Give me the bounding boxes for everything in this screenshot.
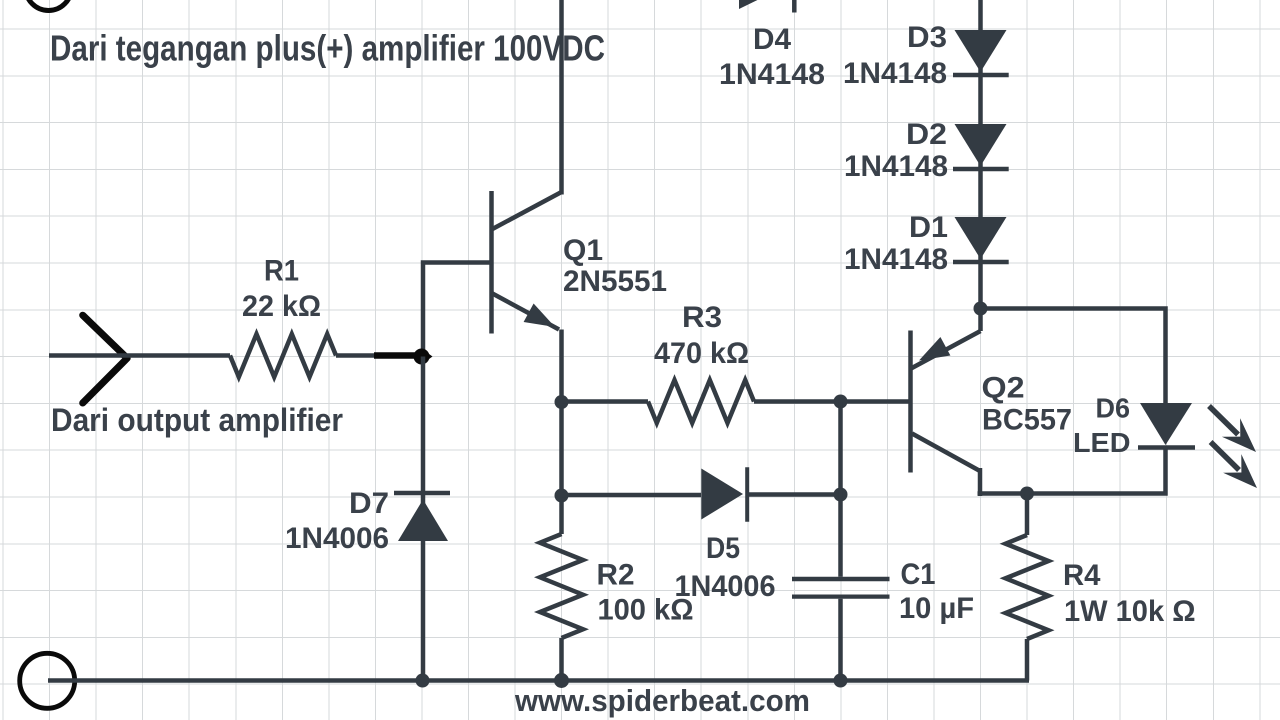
svg-text:R3: R3: [682, 301, 722, 334]
wire Q1 emitter column: [559, 330, 564, 535]
wire R3 to Q2 base: [754, 399, 911, 404]
svg-text:Dari output amplifier: Dari output amplifier: [51, 402, 343, 438]
diode D5 1N4006: [701, 467, 747, 522]
wire bottom rail: [48, 678, 1029, 683]
svg-text:1N4148: 1N4148: [844, 243, 948, 276]
wire Q1 collector feed: [559, 0, 564, 195]
node R3/feedback: [834, 395, 848, 409]
svg-text:D7: D7: [349, 487, 389, 520]
svg-text:www.spiderbeat.com: www.spiderbeat.com: [514, 683, 810, 718]
svg-text:D1: D1: [909, 211, 948, 244]
node emitter/D5: [555, 489, 569, 503]
terminal circle top-left: [26, 0, 72, 11]
wire LED bottom row: [978, 448, 1166, 494]
svg-text:Q1: Q1: [563, 234, 603, 267]
svg-text:1N4006: 1N4006: [285, 522, 389, 555]
LED D6: [1138, 403, 1195, 448]
node rail/R2: [554, 673, 569, 688]
resistor R1: [230, 334, 336, 377]
svg-text:R1: R1: [264, 255, 299, 288]
node D5/C1: [834, 488, 848, 502]
wire diode column: [978, 0, 983, 309]
wire input: [49, 353, 230, 358]
node emitter/R3: [555, 395, 569, 409]
wire R1 to node: [336, 353, 428, 358]
diode D2 1N4148: [953, 124, 1009, 169]
svg-text:1N4148: 1N4148: [844, 150, 948, 183]
svg-text:BC557: BC557: [982, 404, 1072, 437]
svg-text:470 kΩ: 470 kΩ: [654, 337, 749, 370]
wire node to R4: [1025, 494, 1030, 536]
wire R2 to rail: [559, 638, 564, 681]
terminal circle bottom-left: [20, 653, 75, 708]
node diode/emitter/LED: [974, 302, 988, 316]
wire R4 to rail: [1025, 639, 1030, 681]
resistor R2: [540, 534, 583, 638]
svg-text:R2: R2: [597, 559, 635, 592]
svg-text:22 kΩ: 22 kΩ: [242, 290, 321, 323]
wire node to LED top: [981, 309, 1166, 404]
resistor R3: [648, 380, 754, 423]
diode D7 1N4006: [394, 493, 450, 541]
svg-text:Dari tegangan plus(+) amplifie: Dari tegangan plus(+) amplifier 100VDC: [50, 28, 605, 69]
node R4 top: [1020, 487, 1034, 501]
diode D3 1N4148: [953, 30, 1009, 75]
svg-text:100 kΩ: 100 kΩ: [598, 594, 694, 627]
svg-text:LED: LED: [1073, 427, 1131, 458]
node rail/C1: [834, 674, 848, 688]
svg-text:R4: R4: [1063, 559, 1101, 592]
node input-base junction: [414, 349, 430, 365]
wire emitter to R3: [562, 399, 649, 404]
svg-text:1N4148: 1N4148: [719, 58, 825, 91]
diode D1 1N4148: [953, 217, 1009, 262]
svg-text:D4: D4: [753, 23, 791, 56]
svg-text:D5: D5: [706, 532, 740, 565]
transistor Q2 BC557: [911, 309, 981, 497]
svg-text:D2: D2: [906, 118, 947, 151]
svg-text:D6: D6: [1096, 393, 1131, 424]
wire C1 to rail: [838, 599, 843, 681]
svg-text:1W 10k Ω: 1W 10k Ω: [1064, 595, 1196, 628]
node rail/D7: [416, 674, 430, 688]
wire emitter to D5: [562, 493, 702, 498]
svg-text:1N4148: 1N4148: [843, 57, 947, 90]
transistor Q1 2N5551: [492, 191, 562, 334]
LED light arrow 1: [1209, 406, 1256, 452]
svg-text:2N5551: 2N5551: [563, 265, 667, 298]
diode D4 1N4148 (cropped at top): [739, 0, 794, 13]
svg-text:D3: D3: [907, 21, 947, 54]
wire Q1 base: [423, 263, 492, 357]
resistor R4: [1006, 535, 1049, 639]
LED light arrow 2: [1211, 442, 1257, 488]
svg-text:Q2: Q2: [982, 372, 1025, 405]
svg-text:10 µF: 10 µF: [899, 592, 974, 625]
svg-text:C1: C1: [901, 558, 936, 591]
capacitor C1: [792, 579, 890, 597]
wire D5 to C1 node: [749, 492, 841, 497]
wire feedback column: [838, 402, 843, 577]
input arrow: [83, 315, 128, 403]
wire base/D7 column: [421, 357, 426, 681]
